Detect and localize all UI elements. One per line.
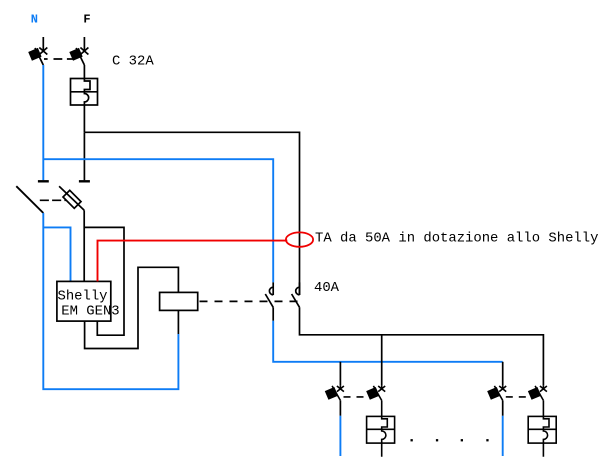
continuation dots bbox=[411, 439, 489, 441]
wire drop to MCB2 N bbox=[339, 362, 341, 386]
breaker Q1 pole N (C 32A) bbox=[29, 37, 47, 65]
breaker MCB2 pole F bbox=[367, 385, 385, 400]
breaker Q1 pole F (C 32A) bbox=[70, 37, 88, 65]
contactor K1 pole F bbox=[292, 282, 300, 307]
trip unit of MCB3 bbox=[528, 400, 556, 456]
wire contactor F lower + black bus bottom bbox=[300, 307, 544, 385]
switch SW1 blade F with fuse bbox=[59, 186, 84, 210]
svg-text:N: N bbox=[31, 13, 38, 27]
wire Shelly output to coil bbox=[85, 267, 179, 348]
wire coil bottom (black) bbox=[177, 310, 179, 334]
switch SW1 blade N bbox=[16, 186, 43, 213]
trip unit of MCB2 bbox=[367, 400, 395, 456]
svg-text:TA da 50A in dotazione allo Sh: TA da 50A in dotazione allo Shelly bbox=[315, 231, 598, 247]
wire F from switch into Shelly bbox=[83, 210, 85, 281]
breaker MCB3 pole N bbox=[488, 385, 506, 400]
switch SW1 contact seat F bbox=[79, 180, 90, 182]
wire drop to MCB2 F bbox=[381, 335, 383, 386]
wire CT secondary (red) bbox=[98, 241, 288, 282]
wire MCB3 N lower blue bbox=[502, 416, 504, 456]
wire N riser (blue) bbox=[42, 65, 44, 180]
svg-text:C 32A: C 32A bbox=[112, 53, 154, 69]
wire blue bus bbox=[43, 159, 273, 282]
coil to contacts mechanical link bbox=[200, 300, 299, 302]
breaker MCB3 pole F bbox=[529, 385, 547, 400]
CT TA 50A ellipse (red) bbox=[286, 232, 313, 246]
wire blue bus bottom bbox=[273, 321, 503, 362]
wire drop to MCB3 N (black below blue corner) bbox=[502, 362, 504, 386]
wire F branch loop to Shelly output bbox=[84, 227, 124, 335]
svg-text:40A: 40A bbox=[314, 280, 340, 296]
trip unit of Q1 (thermal-magnetic) bbox=[71, 65, 98, 132]
breaker MCB3 mechanical link bbox=[506, 396, 532, 398]
svg-text:EM GEN3: EM GEN3 bbox=[61, 304, 119, 320]
wire N from switch (blue) down-around to coil bbox=[43, 213, 178, 389]
contactor coil K1 bbox=[160, 292, 198, 310]
wire N branch into Shelly (blue) bbox=[43, 227, 70, 281]
wire MCB2 N lower black bbox=[339, 400, 341, 415]
svg-text:F: F bbox=[83, 13, 90, 27]
wire MCB3 N lower black bbox=[502, 400, 504, 415]
wire contactor N lower (black then blue) bbox=[272, 307, 274, 321]
breaker MCB2 pole N bbox=[326, 385, 344, 400]
switch SW1 mechanical link bbox=[40, 199, 67, 201]
wire F riser bbox=[83, 132, 85, 180]
wire MCB2 N lower blue bbox=[339, 416, 341, 456]
contactor K1 pole N bbox=[265, 282, 273, 307]
breaker MCB2 mechanical link bbox=[344, 396, 370, 398]
switch SW1 contact seat N bbox=[38, 180, 49, 182]
Shelly EM GEN3 box bbox=[57, 281, 120, 321]
svg-text:Shelly: Shelly bbox=[58, 289, 108, 305]
breaker Q1 mechanical link bbox=[44, 58, 75, 60]
wire black bus top bbox=[84, 132, 299, 295]
